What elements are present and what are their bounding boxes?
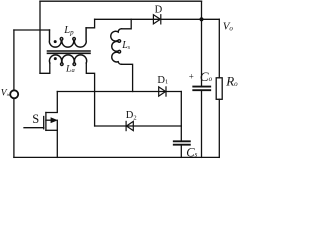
wire top rail (40, 0, 202, 2)
diode D1 (159, 87, 166, 96)
wire left rail upper (Vin to circle) (13, 30, 15, 90)
transistor S (MOSFET) gate wire (24, 127, 44, 129)
svg-text:+: + (189, 72, 194, 82)
inductor Ls (series winding, vertical, bulge left) (111, 29, 122, 65)
wire Ro bottom lead (218, 99, 220, 157)
svg-text:Co: Co (200, 69, 213, 84)
wire drain/D1 rail (57, 91, 181, 93)
node Vo junction dot (199, 17, 203, 21)
transistor S source stub (46, 129, 57, 131)
core bar 1 (48, 50, 91, 52)
svg-text:Cs: Cs (186, 145, 197, 159)
source Vin circle (10, 90, 18, 98)
diode D2 (points left) (126, 121, 133, 130)
transistor S body stub with arrow (46, 119, 52, 121)
svg-text:Vo: Vo (223, 21, 234, 33)
resistor Ro (216, 78, 222, 100)
wire Ls bottom to drain wire (122, 64, 133, 91)
wire Lp step to D wire (86, 19, 95, 28)
wire D2 rail (95, 125, 182, 127)
svg-text:Ro: Ro (225, 74, 238, 89)
svg-text:D2: D2 (126, 110, 137, 122)
node Lp polarity dot (54, 40, 57, 43)
capacitor Cs (174, 141, 190, 144)
transistor S channel bar (45, 113, 47, 131)
wire D anode rail (95, 18, 220, 20)
wire D1 cathode corner down to Cs (180, 92, 182, 141)
wire La left lead U to left drop (40, 63, 50, 73)
wire Vin to Lp (14, 29, 50, 31)
svg-text:D: D (155, 4, 163, 15)
wire La right lead to D2 (86, 63, 94, 126)
wire source vertical to bottom rail (56, 120, 58, 157)
wire left rail lower (circle to bottom) (13, 98, 15, 157)
capacitor Co (193, 87, 210, 91)
wire Vo node drop (201, 1, 203, 86)
svg-text:Lp: Lp (63, 25, 74, 37)
wire Co bottom lead (201, 91, 203, 157)
svg-text:Ls: Ls (121, 40, 131, 51)
wire bottom rail (14, 156, 219, 158)
wire left drop from top rail to La left (39, 1, 41, 73)
svg-text:D1: D1 (157, 75, 168, 86)
svg-text:Vin: Vin (1, 88, 11, 98)
inductor Lp (primary winding, cups down) (49, 28, 86, 47)
svg-text:S: S (32, 112, 39, 126)
core bar 2 (48, 52, 91, 54)
inductor La (aux winding, domes up) (49, 55, 86, 66)
wire Ls step from D wire (122, 19, 132, 29)
wire right corner down to Ro (218, 19, 220, 78)
wire Cs bottom lead (180, 146, 182, 158)
node La polarity dot (54, 57, 57, 60)
transistor S drain stub and vertical (46, 92, 57, 113)
diode D (153, 15, 160, 24)
transistor S gate bar (43, 117, 45, 129)
